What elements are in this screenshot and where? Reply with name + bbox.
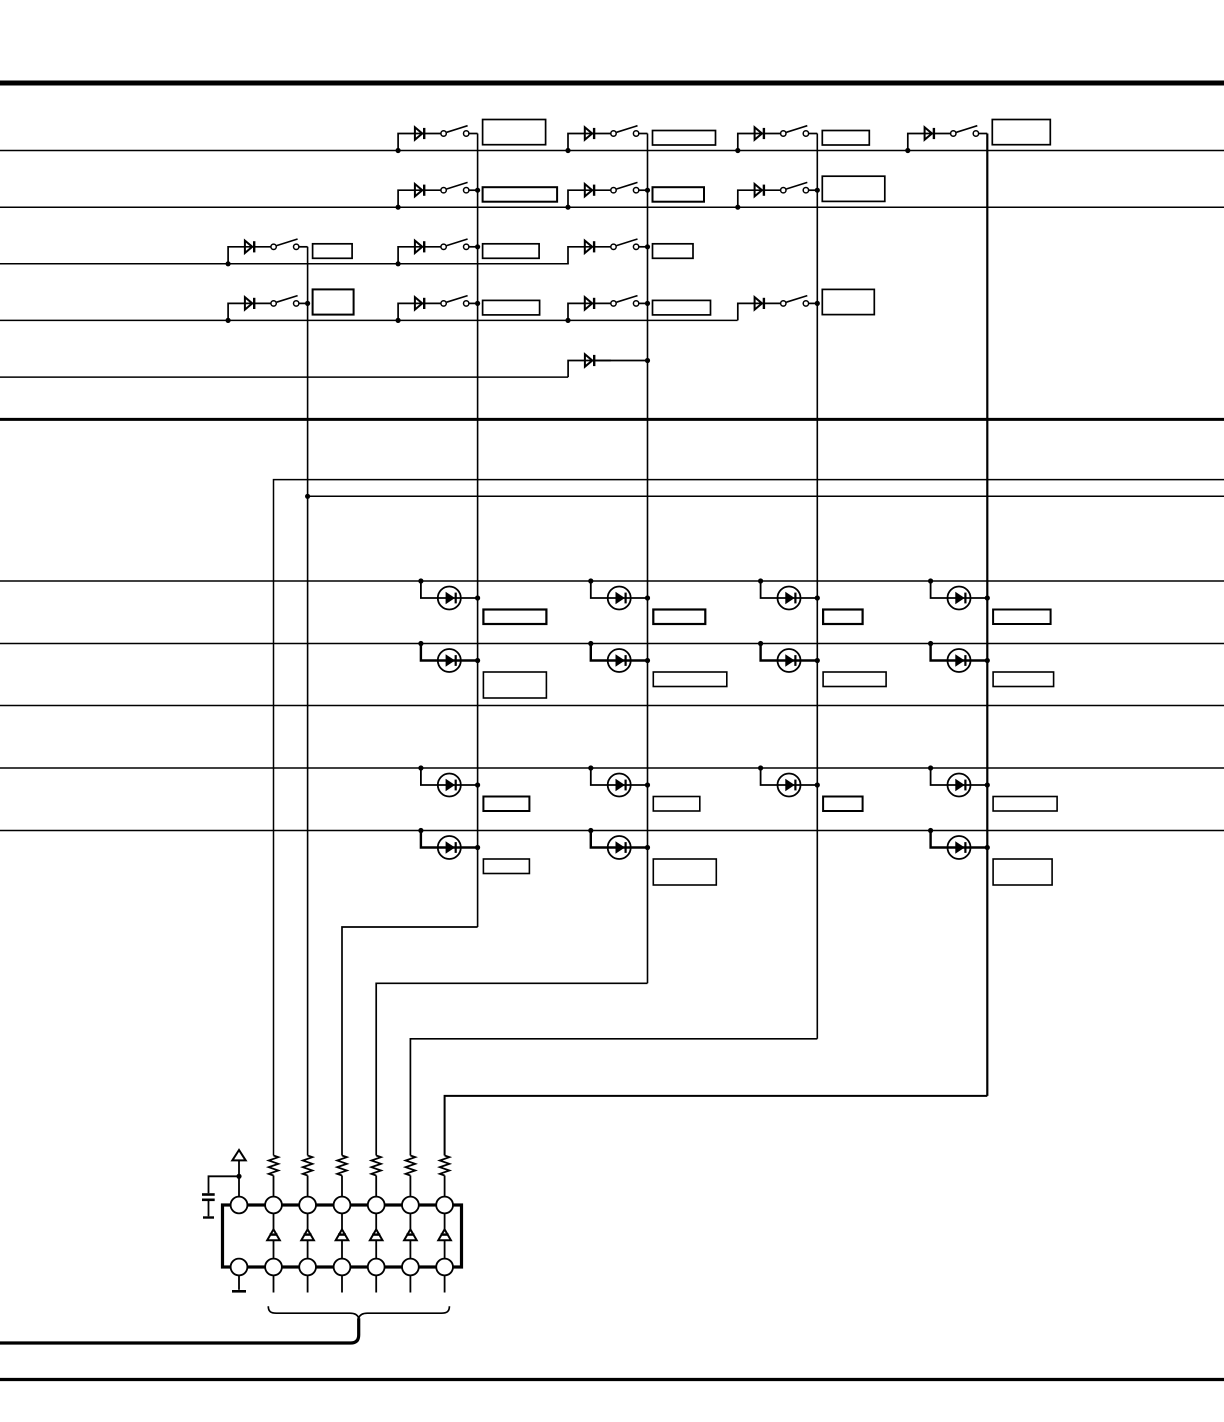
diode D1 <box>415 127 424 139</box>
array diode DA4 <box>370 1229 383 1240</box>
wire: pin to array diode <box>444 1213 446 1229</box>
wire: scan row 2 <box>0 206 1224 208</box>
junction on row wire <box>905 148 910 153</box>
label box <box>653 859 716 885</box>
wire: tap to capacitor <box>209 1176 240 1193</box>
junction on column wire <box>475 244 480 249</box>
LED LED14 (body) <box>608 836 631 859</box>
pin P6 (top) <box>402 1197 419 1214</box>
wire: aux net B (to connector pin 3) <box>308 495 1224 497</box>
wire: branch from row to diode/switch <box>738 134 781 151</box>
wire: branch from row through LED to column <box>931 768 988 785</box>
junction on column wire <box>985 782 990 787</box>
wire: row 5 step up to diode <box>568 361 611 378</box>
junction on column wire <box>815 301 820 306</box>
LED arrow and cathode bar <box>446 780 456 791</box>
wire: scan row 3 <box>0 263 569 265</box>
junction on row wire <box>565 148 570 153</box>
junction on column wire <box>475 845 480 850</box>
diode D10 <box>585 241 594 253</box>
diode D12 <box>415 297 424 309</box>
brace: keyboard cable group <box>268 1306 449 1318</box>
switch S7 <box>781 182 809 193</box>
wire: branch from row to diode/switch <box>398 303 441 320</box>
wire: pin to array diode <box>273 1213 275 1229</box>
LED LED15 (body) <box>948 836 971 859</box>
label box <box>653 797 700 812</box>
label box <box>993 610 1051 625</box>
junction on column wire <box>645 782 650 787</box>
LED arrow and cathode bar <box>616 842 626 853</box>
LED arrow and cathode bar <box>616 780 626 791</box>
label box <box>653 610 705 625</box>
wire: array diode to bottom pin <box>444 1240 446 1258</box>
switch S6 <box>611 182 639 193</box>
power symbol (VCC arrow) <box>232 1150 245 1160</box>
wire: branch from row to diode/switch <box>738 303 781 320</box>
junction on row wire <box>758 578 763 583</box>
LED LED2 (body) <box>608 587 631 610</box>
junction on row wire <box>588 641 593 646</box>
label box <box>822 289 874 314</box>
wire: pin to array diode <box>341 1213 343 1229</box>
wire: switch to column <box>809 189 818 191</box>
pin P11 (bottom) <box>334 1259 351 1276</box>
label box <box>483 610 546 625</box>
LED LED6 (body) <box>608 649 631 672</box>
label box <box>653 131 716 146</box>
bus separator (top thick rule) <box>0 81 1224 86</box>
array diode DA5 <box>404 1229 417 1240</box>
wire: switch to column <box>299 302 308 304</box>
junction on column wire <box>645 658 650 663</box>
wire: VCC to pin 1 <box>238 1160 240 1196</box>
bus separator (bottom thick rule) <box>0 1378 1224 1381</box>
connector CN1 (body) <box>223 1205 462 1267</box>
wire: switch to column <box>979 133 988 135</box>
diode D6 <box>585 184 594 196</box>
wire: branch from row to diode/switch <box>568 190 611 207</box>
junction on row wire <box>565 318 570 323</box>
junction on row wire <box>565 205 570 210</box>
diode D8 <box>245 241 254 253</box>
label box <box>993 672 1054 687</box>
junction on row wire <box>418 765 423 770</box>
diode D7 <box>755 184 764 196</box>
wire: branch from row through LED to column <box>931 644 988 661</box>
label box <box>653 244 694 258</box>
wire: resistor to pin <box>444 1176 446 1197</box>
wire: branch from row through LED to column <box>761 644 818 661</box>
LED LED4 (body) <box>948 587 971 610</box>
bus separator (middle thick rule) <box>0 418 1224 421</box>
diode D14 <box>755 297 764 309</box>
junction on row wire <box>735 205 740 210</box>
switch S8 <box>271 239 299 250</box>
wire: branch from row to diode/switch <box>738 190 781 207</box>
wire: column 3 to connector pin 5 <box>376 983 647 1155</box>
junction of net B on column bus 1 <box>305 494 310 499</box>
wire: branch from row to diode/switch <box>228 247 271 264</box>
LED arrow and cathode bar <box>956 780 966 791</box>
label box <box>653 187 705 202</box>
junction on row wire <box>758 765 763 770</box>
diode D15 <box>585 354 594 366</box>
wire: branch from row to diode/switch <box>908 134 951 151</box>
junction on row wire <box>588 578 593 583</box>
junction on column wire <box>305 301 310 306</box>
diode D5 <box>415 184 424 196</box>
junction on row wire <box>396 261 401 266</box>
wire: branch from row to diode/switch <box>398 134 441 151</box>
wire: bottom pin stub <box>409 1275 411 1292</box>
wire: pin 8 to ground <box>238 1275 240 1289</box>
label box <box>823 672 886 687</box>
wire: aux net A (to connector pin 2) <box>274 480 1224 1156</box>
wire: switch to column <box>299 246 308 248</box>
wire: branch from row through LED to column <box>421 768 478 785</box>
wire: bottom pin stub <box>341 1275 343 1292</box>
wire: branch from row through LED to column <box>591 581 648 598</box>
junction on column wire <box>985 845 990 850</box>
switch S5 <box>441 182 469 193</box>
wire: branch from row to diode/switch <box>398 247 441 264</box>
wire: branch from row to diode/switch <box>228 303 271 320</box>
LED arrow and cathode bar <box>956 593 966 604</box>
diode D2 <box>585 127 594 139</box>
label box <box>823 797 863 812</box>
LED arrow and cathode bar <box>956 655 966 666</box>
resistor R2 <box>303 1156 313 1176</box>
ground (pin 8) <box>232 1290 246 1293</box>
label box <box>483 187 557 202</box>
pin P9 (bottom) <box>265 1259 282 1276</box>
diode D11 <box>245 297 254 309</box>
pin P10 (bottom) <box>299 1259 316 1276</box>
LED arrow and cathode bar <box>786 593 796 604</box>
wire: column 4 to connector pin 6 <box>410 1039 817 1156</box>
LED LED1 (body) <box>438 587 461 610</box>
LED LED9 (body) <box>438 774 461 797</box>
wire: branch from row through LED to column <box>761 768 818 785</box>
wire: LED row 4 <box>0 767 1224 769</box>
wire: array diode to bottom pin <box>409 1240 411 1258</box>
wire: switch to column <box>809 302 818 304</box>
LED arrow and cathode bar <box>956 842 966 853</box>
wire: scan row 1 <box>0 150 1224 152</box>
LED LED10 (body) <box>608 774 631 797</box>
junction at capacitor tap <box>236 1174 241 1179</box>
wire: switch to column <box>469 133 478 135</box>
wire: capacitor to ground <box>208 1201 210 1216</box>
wire: bottom pin stub <box>375 1275 377 1292</box>
wire: resistor to pin <box>409 1176 411 1197</box>
wire: branch from row through LED to column <box>931 581 988 598</box>
LED LED11 (body) <box>778 774 801 797</box>
wire: column bus 1 <box>307 247 309 1156</box>
wire: column bus 4 <box>816 134 818 1039</box>
junction on column wire <box>475 782 480 787</box>
array diode DA2 <box>301 1229 314 1240</box>
pin P8 (bottom) <box>231 1259 248 1276</box>
junction on column wire <box>645 595 650 600</box>
switch S4 <box>951 126 979 137</box>
LED arrow and cathode bar <box>446 655 456 666</box>
switch S11 <box>271 296 299 306</box>
LED LED13 (body) <box>438 836 461 859</box>
wire: diode to column bus 3 <box>596 360 648 362</box>
LED LED7 (body) <box>778 649 801 672</box>
label box <box>483 859 529 874</box>
wire: LED row 3 <box>0 705 1224 707</box>
wire: branch from row through LED to column <box>421 831 478 848</box>
junction on row wire <box>928 641 933 646</box>
junction on column wire <box>475 658 480 663</box>
label box <box>653 672 727 687</box>
junction on row wire <box>735 148 740 153</box>
wire: branch from row through LED to column <box>591 644 648 661</box>
junction on row wire <box>418 641 423 646</box>
LED LED8 (body) <box>948 649 971 672</box>
wire: cable to left edge <box>0 1318 359 1343</box>
junction on column wire <box>645 244 650 249</box>
capacitor C1 <box>202 1195 215 1200</box>
junction on row wire <box>928 578 933 583</box>
wire: switch to column <box>639 246 648 248</box>
LED arrow and cathode bar <box>616 593 626 604</box>
wire: branch from row through LED to column <box>931 831 988 848</box>
junction on row wire <box>226 318 231 323</box>
wire: branch from row to diode/switch <box>568 303 611 320</box>
switch S14 <box>781 296 809 306</box>
array diode DA1 <box>267 1229 280 1240</box>
resistor R3 <box>337 1156 347 1176</box>
wire: array diode to bottom pin <box>341 1240 343 1258</box>
wire: resistor to pin <box>375 1176 377 1197</box>
pin P1 (top) <box>231 1197 248 1214</box>
junction on column bus 3 <box>645 358 650 363</box>
switch S1 <box>441 126 469 137</box>
wire: switch to column <box>469 246 478 248</box>
LED arrow and cathode bar <box>446 842 456 853</box>
wire: branch from row to diode/switch <box>568 247 611 264</box>
wire: switch to column <box>639 302 648 304</box>
wire: branch from row to diode/switch <box>398 190 441 207</box>
junction on column wire <box>475 595 480 600</box>
switch S2 <box>611 126 639 137</box>
wire: resistor to pin <box>341 1176 343 1197</box>
junction on row wire <box>928 765 933 770</box>
wire: branch from row through LED to column <box>421 581 478 598</box>
junction on row wire <box>588 828 593 833</box>
LED LED5 (body) <box>438 649 461 672</box>
wire: column bus 5 <box>986 134 988 1096</box>
label box <box>992 120 1050 145</box>
wire: scan row 5 <box>0 376 568 378</box>
LED LED12 (body) <box>948 774 971 797</box>
pin P7 (top) <box>436 1197 453 1214</box>
junction on column wire <box>985 595 990 600</box>
LED arrow and cathode bar <box>786 655 796 666</box>
junction on row wire <box>418 578 423 583</box>
wire: switch to column <box>639 133 648 135</box>
pin P12 (bottom) <box>368 1259 385 1276</box>
junction on column wire <box>645 188 650 193</box>
LED arrow and cathode bar <box>616 655 626 666</box>
wire: switch to column <box>639 189 648 191</box>
wire: branch from row through LED to column <box>591 768 648 785</box>
label box <box>993 859 1052 885</box>
switch S10 <box>611 239 639 250</box>
wire: column bus 2 <box>477 134 479 928</box>
diode D9 <box>415 241 424 253</box>
resistor R1 <box>269 1156 279 1176</box>
label box <box>483 672 546 698</box>
pin P3 (top) <box>299 1197 316 1214</box>
wire: column 5 to connector pin 7 <box>445 1096 988 1156</box>
resistor R6 <box>440 1156 450 1176</box>
junction on row wire <box>396 318 401 323</box>
label box <box>483 120 546 145</box>
switch S3 <box>781 126 809 137</box>
junction on row wire <box>418 828 423 833</box>
junction on row wire <box>588 765 593 770</box>
pin P13 (bottom) <box>402 1259 419 1276</box>
wire: switch to column <box>809 133 818 135</box>
resistor R4 <box>371 1156 381 1176</box>
array diode DA3 <box>336 1229 349 1240</box>
junction on column wire <box>645 301 650 306</box>
pin P14 (bottom) <box>436 1259 453 1276</box>
wire: bottom pin stub <box>273 1275 275 1292</box>
junction on column wire <box>475 188 480 193</box>
junction on column wire <box>815 782 820 787</box>
wire: branch from row to diode/switch <box>568 134 611 151</box>
ground (capacitor) <box>203 1216 214 1218</box>
wire: LED row 5 <box>0 830 1224 832</box>
wire: switch to column <box>469 189 478 191</box>
wire: array diode to bottom pin <box>273 1240 275 1258</box>
wire: LED row 2 <box>0 643 1224 645</box>
junction on row wire <box>396 148 401 153</box>
junction on row wire <box>758 641 763 646</box>
pin P2 (top) <box>265 1197 282 1214</box>
switch S13 <box>611 296 639 306</box>
junction on column wire <box>815 595 820 600</box>
wire: column bus 3 <box>647 134 649 984</box>
junction on row wire <box>396 205 401 210</box>
wire: branch from row through LED to column <box>421 644 478 661</box>
wire: switch to column <box>469 302 478 304</box>
LED LED3 (body) <box>778 587 801 610</box>
wire: bottom pin stub <box>307 1275 309 1292</box>
junction on column wire <box>815 188 820 193</box>
wire: LED row 1 <box>0 580 1224 582</box>
switch S12 <box>441 296 469 306</box>
wire: scan row 4 <box>0 319 738 321</box>
LED arrow and cathode bar <box>446 593 456 604</box>
label box <box>483 300 540 315</box>
diode D13 <box>585 297 594 309</box>
junction on column wire <box>475 301 480 306</box>
wire: pin to array diode <box>409 1213 411 1229</box>
diode D3 <box>755 127 764 139</box>
wire: pin to array diode <box>307 1213 309 1229</box>
wire: branch from row through LED to column <box>761 581 818 598</box>
label box <box>822 131 869 146</box>
pin P4 (top) <box>334 1197 351 1214</box>
junction on column wire <box>645 845 650 850</box>
wire: bottom pin stub <box>444 1275 446 1292</box>
junction on column wire <box>815 658 820 663</box>
wire: resistor to pin <box>307 1176 309 1197</box>
wire: array diode to bottom pin <box>307 1240 309 1258</box>
LED arrow and cathode bar <box>786 780 796 791</box>
junction on row wire <box>928 828 933 833</box>
diode D4 <box>925 127 934 139</box>
label box <box>653 300 711 315</box>
label box <box>823 610 863 625</box>
label box <box>313 289 354 314</box>
wire: array diode to bottom pin <box>375 1240 377 1258</box>
label box <box>483 797 529 812</box>
label box <box>822 176 885 201</box>
array diode DA6 <box>438 1229 451 1240</box>
junction on row wire <box>226 261 231 266</box>
wire: column 2 to connector pin 4 <box>342 927 478 1156</box>
label box <box>993 797 1057 812</box>
label box <box>483 244 539 258</box>
wire: branch from row through LED to column <box>591 831 648 848</box>
junction on column wire <box>985 658 990 663</box>
switch S9 <box>441 239 469 250</box>
label box <box>313 244 353 258</box>
pin P5 (top) <box>368 1197 385 1214</box>
wire: pin to array diode <box>375 1213 377 1229</box>
wire: resistor to pin <box>273 1176 275 1197</box>
resistor R5 <box>406 1156 416 1176</box>
